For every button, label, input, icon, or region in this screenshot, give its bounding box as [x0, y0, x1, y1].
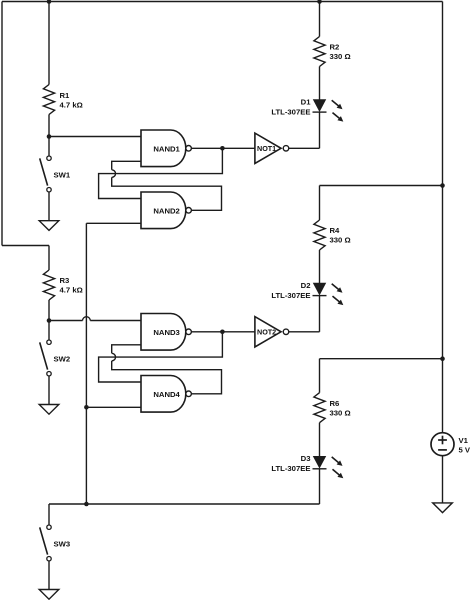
wire V1 to ground	[442, 456, 444, 503]
svg-text:D3: D3	[301, 454, 311, 463]
wire feedback to NAND3 bottom input	[112, 345, 141, 354]
svg-text:R3: R3	[60, 276, 70, 285]
label SW3	[54, 540, 71, 549]
node R1-SW1-NAND1 junction	[47, 134, 52, 139]
label R6 value	[330, 399, 351, 418]
label D2	[271, 281, 310, 300]
wire right rail	[442, 2, 444, 433]
svg-text:NOT1: NOT1	[257, 144, 276, 153]
label D1	[271, 97, 311, 116]
LED D3 light arrows	[332, 457, 344, 478]
node Vcc-R1 junction	[47, 0, 52, 4]
op-amp NOT1 gate	[255, 133, 289, 163]
wire NAND4 bottom input	[86, 406, 141, 408]
wire chain3 top	[320, 358, 443, 360]
node NAND3 output junction	[220, 330, 225, 335]
node NAND1 output junction	[220, 146, 225, 151]
switch SW1	[40, 156, 52, 192]
wire NAND2 output feedback	[112, 177, 222, 210]
ground SW1	[39, 221, 59, 231]
op-amp NAND1 gate	[141, 130, 191, 167]
wire R1 to SW1 node	[48, 115, 50, 137]
switch SW3	[40, 525, 52, 561]
node R3-SW2-NAND3 junction	[47, 318, 52, 323]
svg-text:NAND3: NAND3	[153, 328, 179, 337]
svg-text:SW3: SW3	[54, 540, 71, 549]
wire NOT2 output	[289, 331, 320, 333]
wire bus vertical	[85, 223, 87, 504]
LED D2 light arrows	[332, 284, 344, 305]
diode D3 LED	[313, 457, 327, 469]
wire NAND1 out to NAND2 top input	[99, 148, 223, 198]
node bus-NAND4 junction	[84, 405, 89, 410]
wire hop over crossing	[112, 353, 116, 361]
svg-text:330 Ω: 330 Ω	[330, 52, 351, 61]
wire R4 to D2	[319, 250, 321, 283]
svg-text:NOT2: NOT2	[257, 328, 276, 337]
wire Vcc to R1	[48, 2, 50, 85]
wire NAND3 top input (hops bus)	[49, 317, 141, 321]
wire feedback to NAND1 bottom input	[112, 161, 141, 170]
op-amp NAND3 gate	[141, 314, 191, 351]
wire NAND4 output feedback	[112, 361, 222, 394]
wire SW2 to ground	[48, 376, 50, 405]
resistor R3	[43, 270, 54, 300]
wire rail to R3	[48, 246, 50, 271]
wire left rail bottom jog	[2, 245, 49, 247]
svg-text:V1: V1	[459, 436, 469, 445]
svg-text:R4: R4	[330, 226, 341, 235]
wire node to SW2	[48, 321, 50, 340]
wire NAND1 output	[191, 147, 222, 149]
svg-text:R2: R2	[330, 43, 340, 52]
label SW1	[54, 171, 71, 180]
wire D2 to NOT2 output	[319, 296, 321, 332]
svg-text:D1: D1	[301, 97, 312, 106]
ground SW3	[39, 590, 59, 600]
svg-text:NAND2: NAND2	[153, 207, 179, 216]
svg-text:NAND4: NAND4	[153, 390, 180, 399]
wire hop over crossing	[112, 170, 116, 178]
wire NOT1 output	[289, 147, 320, 149]
label D3	[271, 454, 310, 473]
label R3 value	[60, 276, 83, 295]
node rail chain2 junction	[440, 183, 445, 188]
resistor R2	[314, 37, 325, 67]
wire R3 to SW2 node	[48, 300, 50, 321]
label R4 value	[330, 226, 351, 245]
wire bottom return	[49, 503, 320, 505]
diode D2 LED	[313, 283, 327, 295]
svg-text:LTL-307EE: LTL-307EE	[271, 107, 310, 116]
svg-text:NAND1: NAND1	[153, 145, 180, 154]
svg-text:D2: D2	[301, 281, 311, 290]
node bus-SW3 junction	[84, 502, 89, 507]
wire NAND3 output	[191, 331, 222, 333]
wire junction to NOT1	[222, 147, 255, 149]
wire SW3 to ground	[48, 561, 50, 590]
switch SW2	[40, 340, 52, 376]
op-amp NAND4 gate	[141, 376, 191, 413]
op-amp NOT2 gate	[255, 317, 289, 347]
wire D3 down	[319, 469, 321, 504]
wire left rail	[1, 2, 3, 246]
wire NAND3 out to NAND4 top input	[99, 332, 223, 382]
LED D1 light arrows	[332, 100, 344, 121]
wire Vcc to R2	[319, 2, 321, 37]
wire chain3 down to R6	[319, 359, 321, 393]
svg-text:4.7 kΩ: 4.7 kΩ	[60, 101, 83, 110]
diode D1 LED	[313, 100, 327, 112]
wire chain2 down to R4	[319, 186, 321, 221]
node rail chain3 junction	[440, 356, 445, 361]
wire chain2 top	[320, 185, 443, 187]
svg-text:330 Ω: 330 Ω	[330, 409, 351, 418]
voltage source V1	[431, 433, 454, 456]
svg-text:R1: R1	[60, 91, 71, 100]
svg-text:SW2: SW2	[54, 355, 71, 364]
wire R2 to D1	[319, 67, 321, 100]
wire bottom node to SW3	[48, 504, 50, 525]
label R2 value	[330, 43, 351, 62]
node Vcc chain1 junction	[317, 0, 322, 4]
wire NAND2 bottom input	[86, 222, 141, 224]
resistor R1	[43, 85, 54, 115]
wire R6 to D3	[319, 423, 321, 457]
svg-text:5 V: 5 V	[459, 446, 470, 455]
svg-text:4.7 kΩ: 4.7 kΩ	[60, 286, 83, 295]
ground V1	[433, 503, 453, 513]
wire junction to NOT2	[222, 331, 255, 333]
svg-text:R6: R6	[330, 399, 340, 408]
label V1 value	[459, 436, 470, 455]
ground SW2	[39, 405, 59, 415]
wire SW1 to ground	[48, 192, 50, 221]
label SW2	[54, 355, 71, 364]
wire D1 to NOT1 output	[319, 112, 321, 148]
svg-text:330 Ω: 330 Ω	[330, 236, 351, 245]
svg-text:LTL-307EE: LTL-307EE	[271, 291, 310, 300]
op-amp NAND2 gate	[141, 192, 191, 229]
wire NAND1 top input	[49, 136, 141, 138]
resistor R4	[314, 220, 325, 250]
wire node to SW1	[48, 137, 50, 156]
svg-text:SW1: SW1	[54, 171, 71, 180]
resistor R6	[314, 393, 325, 423]
label R1 value	[60, 91, 83, 110]
svg-text:LTL-307EE: LTL-307EE	[271, 464, 310, 473]
wire top rail	[2, 1, 443, 3]
